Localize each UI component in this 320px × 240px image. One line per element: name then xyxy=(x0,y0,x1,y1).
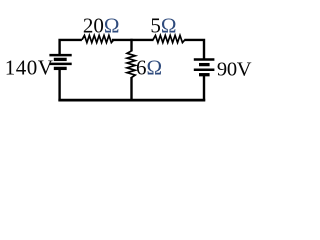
battery V2: short plate 2 xyxy=(199,63,210,66)
battery V1: long plate 3 xyxy=(49,63,71,66)
battery V1: short plate 4 xyxy=(54,67,67,70)
battery V1: short plate 2 xyxy=(54,58,67,61)
svg-text:20Ω: 20Ω xyxy=(83,14,120,38)
resistor 20Ω (top left) xyxy=(82,35,114,42)
wire: stub from top node down to resistor R3 xyxy=(130,39,132,52)
svg-text:140V: 140V xyxy=(5,56,54,80)
battery V1 140V (left): long plate 1 xyxy=(49,54,71,57)
wire: top-right corner from R2 to battery V2 positive terminal xyxy=(184,40,204,60)
resistor 6Ω (middle vertical) xyxy=(127,51,135,78)
svg-text:90V: 90V xyxy=(217,59,252,81)
resistor 5Ω (top right) xyxy=(153,35,185,42)
svg-text:6Ω: 6Ω xyxy=(136,56,162,80)
wire: from battery V1 negative terminal down to bottom rail xyxy=(58,68,60,101)
battery V2: long plate 3 xyxy=(194,69,215,72)
wire: bottom rail xyxy=(58,99,205,102)
battery V2: short plate 4 xyxy=(199,73,210,76)
battery V2 90V (right): long plate 1 xyxy=(194,58,215,61)
svg-text:5Ω: 5Ω xyxy=(150,14,176,38)
wire: top-left corner from battery V1 positive terminal to resistor R1 xyxy=(60,40,82,56)
wire: from battery V2 negative terminal down to bottom rail xyxy=(203,75,205,102)
wire: top rail between R1 and R2 through top node xyxy=(112,39,154,41)
wire: stub from R3 down to bottom rail xyxy=(130,77,132,100)
